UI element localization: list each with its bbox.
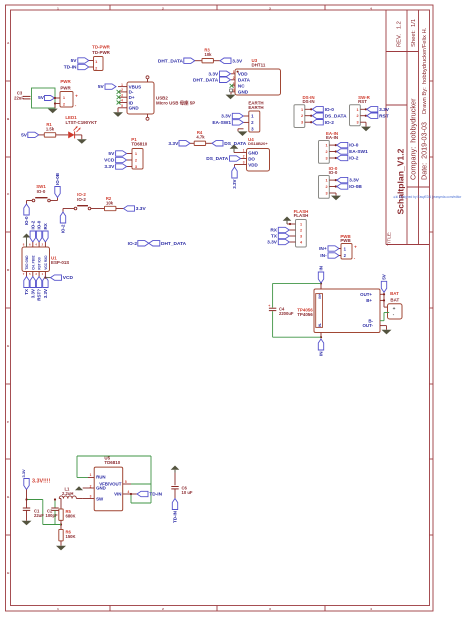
svg-text:TX: TX — [271, 234, 278, 240]
svg-text:2.2uH: 2.2uH — [62, 491, 73, 496]
svg-text:2: 2 — [121, 88, 123, 92]
svg-text:IO-0: IO-0 — [349, 143, 359, 149]
svg-text:3: 3 — [121, 93, 123, 97]
svg-text:5V: 5V — [21, 132, 28, 138]
svg-text:3.3V: 3.3V — [136, 206, 147, 212]
svg-text:DHT_DATA: DHT_DATA — [161, 241, 187, 247]
svg-text:Sheet: 1/1: Sheet: 1/1 — [411, 19, 417, 47]
svg-text:3.3V: 3.3V — [208, 71, 219, 77]
svg-text:DS18B20+: DS18B20+ — [248, 141, 268, 146]
svg-text:EA-IN: EA-IN — [326, 135, 338, 140]
svg-text:4.7k: 4.7k — [196, 135, 205, 140]
svg-text:IN-: IN- — [318, 323, 322, 327]
svg-text:3.3V: 3.3V — [21, 469, 26, 478]
svg-text:VIN: VIN — [114, 491, 121, 496]
svg-text:TD-IN: TD-IN — [64, 65, 77, 71]
svg-text:IN: IN — [319, 266, 324, 271]
svg-text:IO-2: IO-2 — [128, 241, 138, 247]
svg-text:5: 5 — [125, 480, 127, 484]
svg-text:IN+: IN+ — [319, 246, 327, 252]
svg-text:3.3V: 3.3V — [267, 240, 278, 246]
svg-text:3.3V: 3.3V — [221, 114, 232, 120]
svg-text:3: 3 — [356, 121, 358, 125]
svg-text:NC: NC — [238, 84, 245, 89]
svg-text:4: 4 — [233, 88, 235, 92]
svg-text:GND: GND — [238, 90, 249, 95]
svg-text:TXD GND: TXD GND — [25, 255, 29, 270]
svg-text:IO-2: IO-2 — [325, 120, 335, 126]
svg-text:4: 4 — [128, 490, 130, 494]
svg-text:Date: 2019-03-03: Date: 2019-03-03 — [419, 122, 428, 180]
svg-text:22uF: 22uF — [14, 95, 24, 100]
svg-text:3.3V: 3.3V — [168, 141, 179, 147]
svg-text:TD6810: TD6810 — [131, 142, 147, 147]
svg-text:2: 2 — [301, 114, 303, 118]
svg-text:TX: TX — [24, 289, 29, 295]
svg-text:2: 2 — [233, 76, 235, 80]
svg-text:5: 5 — [121, 104, 123, 108]
svg-text:3: 3 — [325, 157, 327, 161]
svg-text:3.3V: 3.3V — [232, 180, 237, 189]
svg-text:1: 1 — [90, 473, 92, 477]
svg-text:D+: D+ — [129, 95, 135, 100]
svg-text:IO-0: IO-0 — [329, 170, 338, 175]
svg-text:3.3V!!!!: 3.3V!!!! — [32, 479, 50, 485]
svg-text:IO-0: IO-0 — [37, 189, 46, 194]
svg-text:DS-IN: DS-IN — [302, 99, 314, 104]
svg-text:3: 3 — [301, 121, 303, 125]
svg-text:1: 1 — [121, 83, 123, 87]
svg-text:10k: 10k — [205, 52, 213, 57]
svg-text:2: 2 — [243, 155, 245, 159]
svg-text:FLASH: FLASH — [294, 213, 309, 218]
svg-text:1: 1 — [325, 179, 327, 183]
svg-text:1: 1 — [243, 149, 245, 153]
svg-text:5V: 5V — [382, 274, 387, 280]
svg-text:PWR: PWR — [60, 86, 71, 91]
svg-text:PWB: PWB — [340, 238, 350, 243]
svg-text:5V: 5V — [98, 84, 105, 90]
svg-text:10k: 10k — [106, 200, 114, 205]
svg-text:IO-2: IO-2 — [61, 224, 66, 233]
svg-text:TP4056: TP4056 — [297, 312, 313, 317]
svg-text:SW: SW — [96, 496, 104, 501]
svg-text:BAT: BAT — [390, 291, 399, 296]
svg-text:RST: RST — [358, 99, 367, 104]
svg-text:1: 1 — [356, 108, 358, 112]
svg-text:2: 2 — [356, 114, 358, 118]
svg-text:DO: DO — [248, 156, 255, 161]
svg-text:5V: 5V — [108, 151, 115, 157]
svg-text:VDD: VDD — [248, 162, 258, 167]
svg-text:3: 3 — [90, 495, 92, 499]
svg-text:REV. 1.2: REV. 1.2 — [397, 21, 403, 47]
svg-text:IO-0: IO-0 — [24, 216, 29, 225]
svg-text:3.3V: 3.3V — [43, 289, 48, 298]
svg-text:DATA: DATA — [238, 78, 251, 83]
svg-text:+: + — [354, 245, 357, 250]
svg-text:100pF: 100pF — [46, 513, 59, 518]
svg-text:3.3V: 3.3V — [349, 178, 360, 184]
svg-text:F: F — [7, 420, 9, 424]
svg-text:ESP-01S: ESP-01S — [51, 260, 69, 265]
svg-text:GND: GND — [248, 150, 259, 155]
svg-text:OUT-: OUT- — [363, 323, 374, 328]
svg-text:2: 2 — [325, 185, 327, 189]
svg-text:DS_DATA: DS_DATA — [224, 141, 246, 147]
svg-text:+: + — [268, 304, 270, 308]
svg-text:3: 3 — [325, 192, 327, 196]
svg-text:VBUS: VBUS — [129, 84, 142, 89]
svg-text:OUT+: OUT+ — [360, 292, 372, 297]
svg-text:EA-SW1: EA-SW1 — [349, 149, 368, 155]
svg-text:IO-0B: IO-0B — [349, 184, 362, 190]
svg-text:TITLE:: TITLE: — [387, 232, 393, 246]
svg-text:680K: 680K — [66, 514, 76, 519]
svg-text:VCD: VCD — [63, 275, 74, 281]
svg-text:PWR: PWR — [60, 79, 71, 84]
svg-text:RX: RX — [270, 228, 277, 234]
svg-text:TD6810: TD6810 — [104, 460, 120, 465]
svg-text:ID: ID — [129, 100, 134, 105]
svg-text:Company: hobbydrucker: Company: hobbydrucker — [409, 98, 418, 180]
svg-text:22uF: 22uF — [34, 513, 44, 518]
svg-text:2: 2 — [300, 229, 302, 233]
svg-text:1: 1 — [325, 144, 327, 148]
svg-text:VDD: VDD — [238, 72, 248, 77]
svg-text:Micro USB 母座 5P: Micro USB 母座 5P — [156, 99, 195, 106]
svg-text:5V: 5V — [38, 95, 45, 101]
svg-text:IO-2: IO-2 — [30, 220, 35, 229]
svg-text:3: 3 — [243, 161, 245, 165]
svg-text:10 uF: 10 uF — [182, 490, 193, 495]
svg-text:TD-IN: TD-IN — [149, 492, 162, 498]
svg-text:DS_DATA: DS_DATA — [325, 113, 347, 119]
svg-text:VCD: VCD — [104, 158, 115, 164]
svg-text:3.3V: 3.3V — [104, 164, 115, 170]
svg-text:3.3V: 3.3V — [232, 58, 243, 64]
svg-text:IO-2: IO-2 — [349, 156, 359, 162]
svg-text:H: H — [7, 571, 9, 575]
svg-text:IO-0: IO-0 — [325, 107, 335, 113]
svg-text:3: 3 — [300, 235, 302, 239]
svg-text:IO-0B: IO-0B — [55, 172, 60, 185]
svg-text:EA-SW1: EA-SW1 — [212, 120, 231, 126]
svg-text:GND: GND — [129, 106, 140, 111]
svg-text:1.5k: 1.5k — [46, 126, 55, 131]
svg-text:DS_DATA: DS_DATA — [206, 156, 228, 162]
svg-text:DHT11: DHT11 — [252, 63, 266, 68]
svg-text:4: 4 — [121, 99, 123, 103]
svg-text:LTST-C190YKT: LTST-C190YKT — [66, 120, 98, 125]
svg-text:1: 1 — [300, 223, 302, 227]
svg-text:3.3V: 3.3V — [379, 107, 390, 113]
svg-text:1: 1 — [301, 108, 303, 112]
svg-text:TD-IN: TD-IN — [173, 511, 178, 523]
svg-text:RST IO0: RST IO0 — [38, 257, 42, 270]
svg-text:RST: RST — [379, 113, 389, 119]
svg-text:IN+: IN+ — [318, 293, 322, 298]
svg-text:⎈▣ Designed by EasyEDA | easye: ⎈▣ Designed by EasyEDA | easyeda.com/edi… — [393, 195, 462, 199]
svg-text:GND: GND — [96, 486, 106, 491]
svg-text:IN-: IN- — [320, 253, 327, 259]
svg-text:3.3V: 3.3V — [30, 289, 35, 298]
svg-text:+: + — [75, 93, 78, 98]
svg-text:BAT: BAT — [390, 298, 399, 303]
svg-text:IO-2: IO-2 — [77, 197, 86, 202]
svg-text:IO-0: IO-0 — [37, 220, 42, 229]
svg-text:2200uF: 2200uF — [279, 311, 294, 316]
svg-text:TD-PWR: TD-PWR — [92, 50, 111, 55]
svg-text:1: 1 — [233, 70, 235, 74]
svg-text:RX: RX — [43, 223, 48, 229]
svg-text:DHT_DATA: DHT_DATA — [158, 58, 184, 64]
svg-text:150K: 150K — [66, 534, 76, 539]
svg-text:VCC RXD: VCC RXD — [44, 255, 48, 270]
svg-text:IN: IN — [319, 352, 324, 357]
svg-text:2: 2 — [325, 150, 327, 154]
svg-text:CH_PB02: CH_PB02 — [31, 255, 35, 270]
svg-text:EARTH: EARTH — [248, 105, 263, 110]
svg-text:E: E — [7, 344, 9, 348]
svg-text:DHT_DATA: DHT_DATA — [193, 77, 219, 83]
svg-text:Drawn By: hobbydrucker/Felix: Drawn By: hobbydrucker/Felix H. — [422, 27, 428, 114]
svg-text:B+: B+ — [366, 298, 372, 303]
svg-text:RST?: RST? — [37, 289, 42, 301]
svg-text:D-: D- — [129, 90, 134, 95]
svg-text:Schaltplan_V1.2: Schaltplan_V1.2 — [396, 148, 406, 214]
svg-text:5V: 5V — [71, 58, 78, 64]
svg-text:RUN: RUN — [96, 474, 106, 479]
